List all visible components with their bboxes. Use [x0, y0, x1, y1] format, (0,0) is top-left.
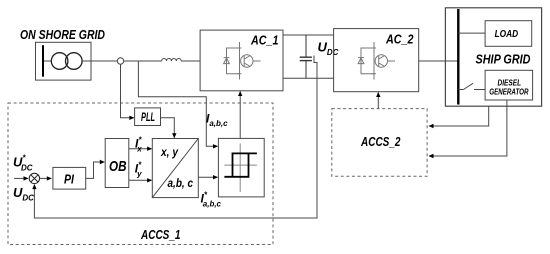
bus bar (ship grid)	[457, 9, 459, 105]
wire summing junction to PI	[40, 177, 52, 179]
bus bar (shore)	[42, 45, 44, 76]
breaker switch to diesel generator	[458, 83, 485, 89]
hysteresis loop	[224, 153, 257, 176]
svg-text:UDC: UDC	[318, 40, 339, 58]
wire diesel generator measurement to ACCS_2 (lower)	[429, 100, 507, 156]
wire U*_DC input arrow	[14, 177, 28, 179]
svg-text:U*DC: U*DC	[13, 154, 33, 173]
wire ACCS_2 gating to AC_2	[377, 93, 379, 109]
load box	[485, 21, 532, 47]
summing junction	[29, 173, 39, 183]
svg-text:PLL: PLL	[141, 112, 155, 124]
wire transformer to node	[82, 60, 117, 62]
wire DC- rail	[283, 77, 334, 79]
svg-text:AC_1: AC_1	[250, 32, 278, 47]
node A (PCC measuring node)	[117, 58, 123, 64]
svg-text:x, y: x, y	[160, 145, 179, 159]
svg-text:OB: OB	[109, 158, 127, 175]
block PI	[53, 167, 86, 189]
wire node to PLL	[121, 64, 134, 118]
converter AC_2 box	[334, 29, 419, 92]
converter AC_1 box	[200, 30, 283, 91]
svg-text:PI: PI	[64, 171, 74, 186]
wire inductor to AC_1	[181, 60, 200, 62]
diode D2 inside AC_2	[358, 58, 364, 64]
svg-text:UDC: UDC	[13, 185, 34, 203]
svg-text:SHIP GRID: SHIP GRID	[476, 52, 531, 67]
wire PI to OB	[86, 162, 105, 178]
controller ACCS_1 dashed box	[8, 103, 273, 245]
transformer T1 (shore transformer box)	[36, 42, 92, 80]
svg-text:I*y: I*y	[135, 161, 142, 179]
U_DC sense tap	[314, 56, 318, 63]
block hysteresis comparator	[218, 138, 264, 197]
wire hysteresis gating to AC_1	[239, 92, 241, 139]
svg-text:ACCS_2: ACCS_2	[360, 134, 401, 149]
transformer coil 1	[51, 53, 68, 70]
IGBT leg symbol inside AC_1	[227, 42, 261, 80]
wire U_DC feedback to summing junction	[34, 63, 317, 219]
wire node to inductor	[124, 60, 162, 62]
wire ship-grid measurement to ACCS_2 (upper)	[429, 106, 489, 126]
block OB	[105, 139, 129, 188]
capacitor C1 (DC link)	[300, 35, 312, 78]
block PLL	[135, 108, 161, 126]
svg-text:LOAD: LOAD	[495, 29, 519, 40]
wire bus bar to transformer coils	[44, 60, 51, 62]
wire PLL to transformation block	[161, 118, 175, 138]
wire I*_x reference	[129, 148, 152, 150]
svg-text:GENERATOR: GENERATOR	[489, 86, 529, 96]
wire I*_y reference	[129, 179, 152, 181]
wire I_abc current measurement	[138, 61, 217, 146]
transformer coil 2	[66, 53, 83, 70]
hysteresis axes	[224, 143, 257, 192]
block coordinate transformation x,y to a,b,c	[152, 139, 198, 198]
svg-text:ON SHORE GRID: ON SHORE GRID	[20, 27, 105, 42]
controller ACCS_2 dashed box	[332, 109, 427, 177]
svg-text:Ia,b,c: Ia,b,c	[206, 111, 228, 128]
svg-text:I*x: I*x	[135, 136, 142, 154]
svg-text:a,b, c: a,b, c	[168, 176, 194, 190]
diode D1 inside AC_1	[224, 58, 230, 64]
svg-text:AC_2: AC_2	[385, 32, 414, 47]
ship grid panel box	[445, 8, 541, 106]
svg-text:ACCS_1: ACCS_1	[140, 227, 180, 242]
wire DC+ rail	[283, 34, 334, 36]
diesel generator box	[485, 70, 532, 100]
inductor L1	[162, 59, 182, 61]
wire AC_2 to ship grid bus	[419, 60, 458, 62]
wire bus to load	[458, 32, 485, 34]
IGBT leg symbol inside AC_2	[361, 42, 395, 80]
wire transformation to hysteresis (I*_abc)	[198, 176, 217, 178]
